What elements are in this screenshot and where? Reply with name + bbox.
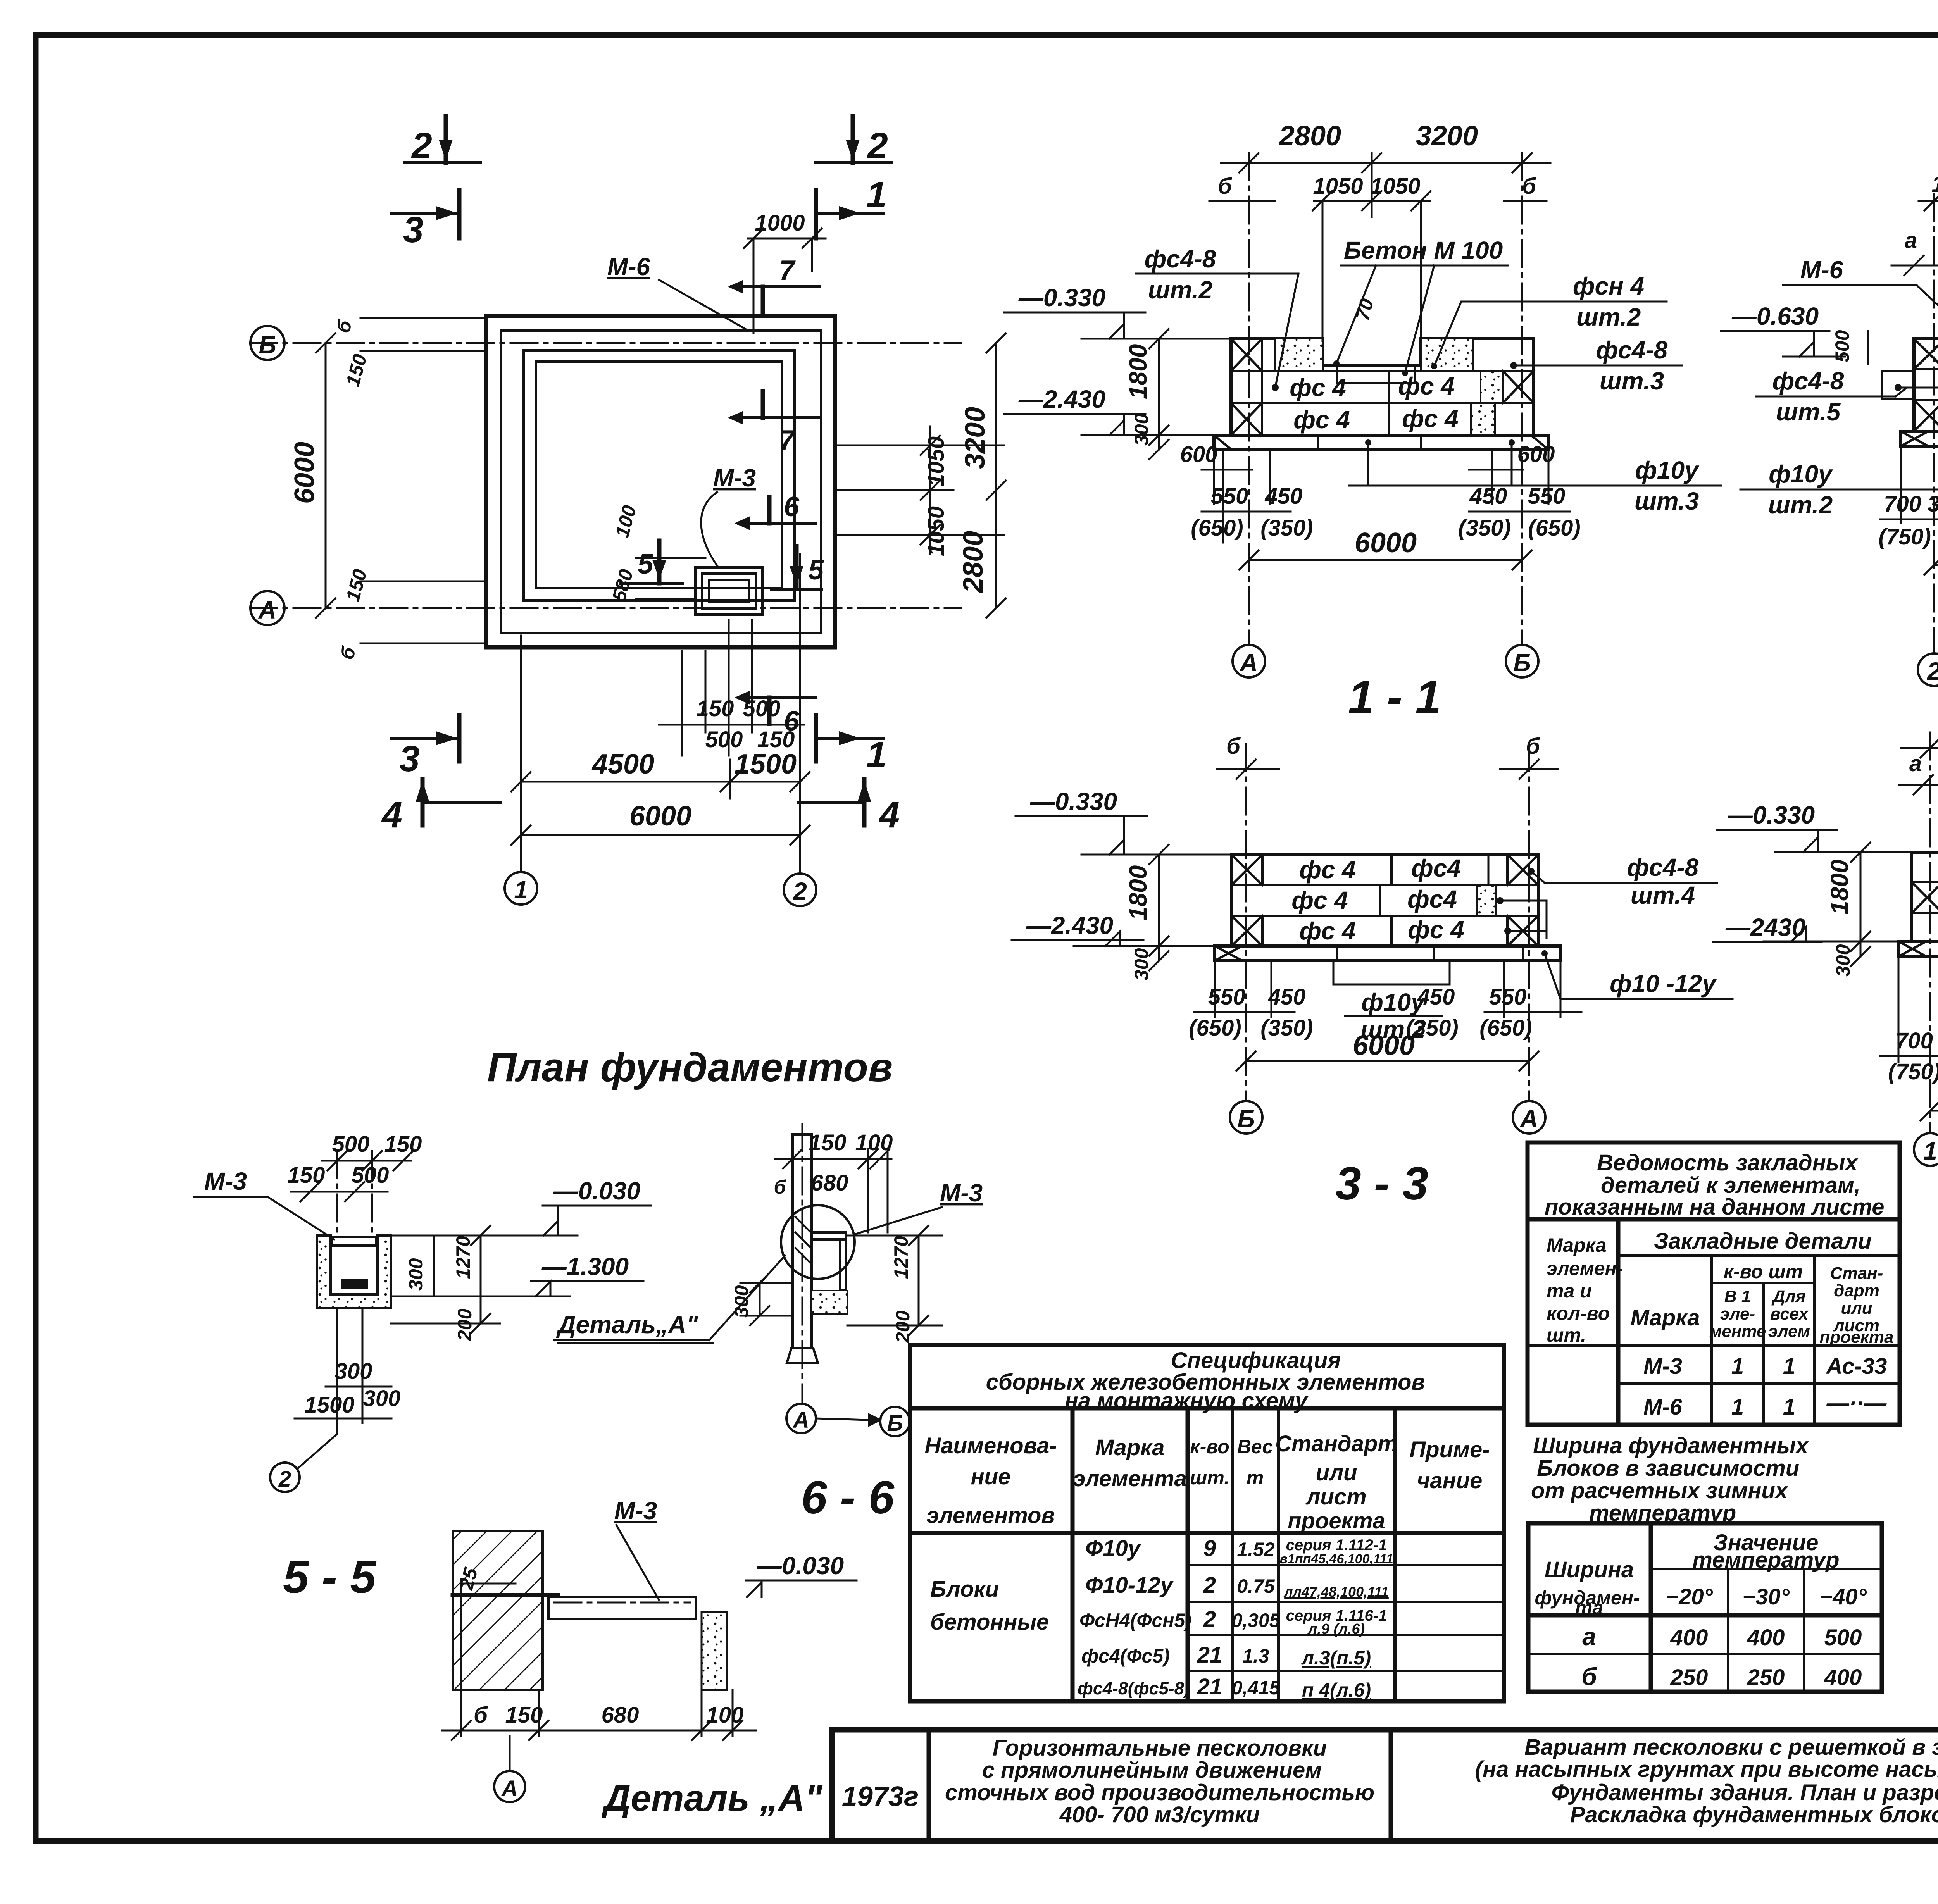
svg-text:1050: 1050 [924,506,949,556]
dim 6000 4-4 [1930,1110,1938,1112]
svg-text:М-3: М-3 [1643,1354,1682,1379]
svg-text:А: А [792,1408,809,1433]
svg-text:б: б [774,1176,787,1198]
section marker 4 bottom-right [862,779,867,825]
svg-text:(650): (650) [1479,1015,1532,1041]
joints and dotted blocks 3-3 [1390,855,1393,885]
b marks 3-3 top [1217,768,1279,770]
svg-text:—0.330: —0.330 [1030,787,1117,815]
svg-text:фс4: фс4 [1411,854,1461,882]
svg-text:400: 400 [1747,1625,1785,1650]
plan second line [501,331,821,633]
svg-text:шт.2: шт.2 [1576,303,1641,331]
bottom dims 3-3 left [1214,961,1216,1017]
section 7 marker lower [732,416,820,419]
dim 1050 1050 and b marks [1209,200,1275,202]
svg-text:шт.3: шт.3 [1600,367,1664,395]
axis circle 2 5-5 [270,1463,300,1492]
svg-text:—0.630: —0.630 [1731,302,1819,330]
svg-text:Марка: Марка [1630,1305,1700,1330]
svg-text:5: 5 [808,555,824,586]
svg-text:3: 3 [403,209,424,250]
plan dimension 4500 1500 [521,781,800,783]
svg-text:—0.330: —0.330 [1018,284,1105,312]
step line 25 [453,1593,558,1597]
svg-text:фс4-8: фс4-8 [1627,853,1699,881]
svg-text:—0.030: —0.030 [553,1177,640,1205]
svg-text:6 - 6: 6 - 6 [801,1472,895,1523]
X block row2 right [1503,371,1534,403]
svg-text:проекта: проекта [1820,1328,1894,1347]
axis 1 vertical line [520,636,522,871]
top plate 6-6 [812,1232,846,1239]
specification table frame [910,1345,1504,1701]
plan outer foundation edge [486,316,835,647]
U-shaped pit section [317,1235,391,1308]
svg-text:2800: 2800 [1278,121,1341,152]
svg-text:кол-во: кол-во [1547,1303,1610,1324]
svg-text:Ф10-12у: Ф10-12у [1085,1573,1174,1598]
svg-text:300: 300 [1832,944,1854,977]
svg-text:2: 2 [793,877,807,905]
svg-text:шт.: шт. [1190,1467,1229,1489]
plan right extension lines [835,445,1004,446]
svg-text:300: 300 [1131,413,1152,446]
svg-text:680: 680 [602,1702,639,1728]
vertical 1800 4-4 [1860,852,1862,956]
axis A dash-dot line [250,607,961,609]
svg-text:Б: Б [1513,649,1531,677]
svg-text:а: а [1905,228,1917,253]
svg-text:1000: 1000 [1931,172,1938,197]
svg-text:Стандарт: Стандарт [1275,1431,1398,1456]
M-3 plate detail A [548,1597,696,1619]
svg-text:фс 4: фс 4 [1293,406,1350,434]
row2 joints and dotted block [1261,371,1263,403]
svg-text:(на насыпных грунтах при вы: (на насыпных грунтах при высоте насыпи д… [1475,1757,1938,1782]
svg-text:проекта: проекта [1288,1508,1385,1534]
svg-text:1: 1 [866,174,887,215]
X blocks 3-3 [1261,855,1264,885]
dim 6000 [1249,559,1522,561]
svg-text:—2430: —2430 [1725,913,1805,941]
svg-text:шт.5: шт.5 [1776,398,1841,426]
svg-text:б: б [1218,174,1233,199]
svg-text:ф10у: ф10у [1361,988,1426,1016]
svg-text:фс 4: фс 4 [1299,856,1356,884]
svg-text:фс4-8: фс4-8 [1596,336,1668,364]
svg-text:4: 4 [381,794,402,836]
svg-text:элемен-: элемен- [1547,1258,1623,1279]
svg-text:а: а [1582,1623,1596,1651]
axis B dash-dot line [250,342,961,344]
svg-text:или: или [1316,1460,1357,1485]
svg-text:450: 450 [1417,984,1455,1010]
a marks 4-4 [1899,784,1938,786]
svg-text:400: 400 [1824,1665,1862,1690]
svg-text:ф10у: ф10у [1635,456,1700,484]
svg-text:М-3: М-3 [713,464,756,492]
svg-text:3 - 3: 3 - 3 [1335,1158,1428,1210]
svg-text:М-6: М-6 [1800,256,1843,284]
svg-text:б: б [474,1702,488,1728]
svg-text:План фундаментов: План фундаментов [487,1045,893,1090]
svg-text:фс 4: фс 4 [1398,372,1455,400]
svg-text:лист: лист [1305,1484,1366,1509]
svg-text:фс 4: фс 4 [1290,374,1346,401]
svg-text:Горизонтальные песколовки: Горизонтальные песколовки [993,1735,1327,1761]
svg-text:(650): (650) [1191,515,1243,541]
axis lines 4-4 [1929,732,1931,1133]
svg-text:Бетон М 100: Бетон М 100 [1344,236,1503,264]
section 2-2 wall [1914,339,1938,431]
svg-text:Ширина фундаментных: Ширина фундаментных [1533,1433,1809,1458]
svg-text:А: А [1239,649,1258,677]
svg-text:300: 300 [335,1359,372,1384]
axis circle 2 [784,874,816,906]
svg-text:1050: 1050 [924,436,949,486]
bottom dim cluster left [1213,450,1215,504]
section marker 1 top-right [816,212,884,215]
axis circles 4-4 [1914,1133,1938,1166]
section marker 1 bottom-right [816,737,884,740]
svg-text:л.3(п.5): л.3(п.5) [1301,1647,1371,1669]
svg-text:550: 550 [1208,984,1246,1010]
svg-text:Ведомость закладных: Ведомость закладных [1597,1150,1859,1175]
svg-text:(350): (350) [1260,1015,1313,1041]
vedomost table frame [1528,1142,1900,1425]
svg-text:1.3: 1.3 [1242,1645,1269,1667]
section 5 marker left [620,582,682,585]
svg-text:фс4: фс4 [1407,885,1457,913]
svg-text:550: 550 [1489,984,1527,1010]
axis circles 3-3 [1230,1101,1262,1134]
svg-text:—1.300: —1.300 [541,1253,629,1280]
svg-text:всех: всех [1770,1304,1809,1323]
svg-text:А: А [258,596,276,624]
svg-text:2: 2 [1927,657,1938,685]
svg-text:150: 150 [505,1702,543,1728]
section 4-4 wall [1912,852,1938,941]
svg-text:(750) (250): (750) (250) [1879,524,1938,550]
svg-text:1270: 1270 [452,1236,474,1279]
svg-text:21: 21 [1197,1642,1222,1668]
svg-text:1 - 1: 1 - 1 [1348,671,1441,723]
svg-text:Ас-33: Ас-33 [1826,1354,1887,1379]
section 3-3 wall [1231,855,1538,946]
svg-text:фс 4: фс 4 [1299,917,1356,945]
svg-text:п 4(л.6): п 4(л.6) [1302,1679,1371,1701]
bottom dims 4-4 [1898,956,1900,1062]
Деталь А caption near title block [602,1778,823,1819]
svg-text:1800: 1800 [1826,860,1854,915]
svg-text:элементов: элементов [926,1503,1055,1528]
footing 3-3 [1215,946,1560,961]
svg-text:шт.2: шт.2 [1768,491,1833,519]
vertical dim 1800 / 300 [1158,339,1160,450]
svg-text:200: 200 [892,1310,914,1343]
svg-text:3200: 3200 [1416,121,1478,152]
svg-text:фс 4: фс 4 [1408,916,1464,944]
vertical dims 1800 300 3-3 [1158,855,1160,961]
svg-text:чание: чание [1417,1468,1483,1493]
svg-text:Деталь„А": Деталь„А" [556,1311,698,1339]
small dims bottom-left 150,b [360,581,484,582]
concrete fill right of notch [1421,339,1473,371]
svg-text:150: 150 [384,1132,422,1157]
svg-text:(650): (650) [1189,1015,1241,1041]
svg-text:б: б [1522,174,1537,199]
plan dim 3200 2800 vertical right [995,343,997,608]
axis circle B [250,326,284,360]
svg-text:—2.430: —2.430 [1026,912,1113,939]
svg-text:б: б [1226,734,1241,759]
callout circle 6-6 [781,1205,855,1279]
svg-text:к-во: к-во [1190,1436,1229,1458]
svg-text:150: 150 [809,1130,847,1155]
svg-text:М-6: М-6 [607,253,650,281]
svg-text:300: 300 [1131,948,1152,980]
plan bottom small dims 150 500 500 150 [659,724,804,726]
axis circle A [250,591,284,625]
svg-text:450: 450 [1268,984,1306,1010]
svg-text:А: А [1519,1105,1538,1133]
axis circles A B 6-6 [786,1404,816,1433]
svg-text:600: 600 [1517,442,1555,467]
svg-text:1.52: 1.52 [1237,1539,1275,1560]
plan inner foundation edge outer [523,351,795,601]
svg-text:фс4-8(фс5-8): фс4-8(фс5-8) [1078,1678,1190,1698]
svg-text:2: 2 [278,1466,291,1492]
svg-text:6000: 6000 [1353,1030,1415,1061]
svg-text:фс 4: фс 4 [1402,405,1459,432]
svg-text:4: 4 [878,794,900,836]
top dim 2800 3200 [1221,162,1550,164]
X block row3 left [1914,400,1938,431]
svg-text:600: 600 [1180,442,1218,467]
X block row1 left [1914,339,1938,369]
title block outline [832,1727,1938,1733]
svg-text:2800: 2800 [958,531,989,594]
svg-text:Б: Б [1237,1105,1255,1133]
svg-text:показанным на данном листе: показанным на данном листе [1545,1194,1885,1220]
dimension 1000 top [748,238,826,240]
svg-text:—··—: —··— [1826,1391,1887,1416]
svg-text:—0.330: —0.330 [1728,801,1815,829]
svg-text:500: 500 [352,1163,389,1188]
top dim 4500 1500 [1901,747,1938,749]
svg-text:300: 300 [363,1386,401,1411]
svg-text:фсн 4: фсн 4 [1573,272,1644,300]
section marker 2 top-right [851,116,855,163]
svg-text:Наименова-: Наименова- [924,1433,1057,1458]
svg-text:(350): (350) [1260,515,1313,541]
bottom dim cluster right [1491,450,1493,504]
svg-text:л.9 (л.6): л.9 (л.6) [1307,1621,1365,1637]
svg-text:менте: менте [1709,1322,1766,1341]
svg-text:элем: элем [1768,1322,1810,1341]
footing 4-4 [1898,941,1938,956]
axis circles 2-2 [1918,653,1938,686]
svg-text:(650): (650) [1528,515,1580,541]
svg-text:2: 2 [867,125,888,166]
section marker 2 top-left [444,116,448,163]
svg-text:2: 2 [1203,1607,1216,1632]
svg-text:6: 6 [784,491,800,522]
svg-text:500: 500 [1831,330,1853,362]
svg-text:Вариант песколовки с решетко: Вариант песколовки с решеткой в здании [1524,1735,1938,1760]
section marker 3 top-left [391,212,459,215]
row2 protruding block left [1882,371,1914,399]
svg-text:3: 3 [399,738,420,779]
300 vertical left of post [759,1283,761,1316]
svg-text:1: 1 [866,734,887,775]
svg-text:М-3: М-3 [940,1179,983,1207]
svg-text:150: 150 [697,696,734,721]
post 6-6 [793,1134,812,1348]
X block row3 left [1231,403,1262,435]
svg-text:Стан-: Стан- [1830,1264,1883,1283]
svg-text:7: 7 [779,425,796,456]
svg-text:1: 1 [1783,1354,1795,1379]
svg-text:сточных вод производительность: сточных вод производительностью [945,1780,1374,1805]
svg-text:550: 550 [1528,484,1566,509]
svg-text:6000: 6000 [289,442,320,504]
axis lines 2-2 [1933,194,1935,653]
svg-text:2: 2 [411,125,432,166]
section 6 marker upper [738,522,816,525]
svg-text:−30°: −30° [1742,1584,1790,1609]
svg-text:2: 2 [1203,1573,1216,1598]
svg-text:1: 1 [1731,1394,1744,1420]
plan dimension 6000 bottom [521,834,800,836]
svg-text:6000: 6000 [629,801,691,832]
row lines [1231,370,1534,372]
svg-text:ФсН4(Фсн5): ФсН4(Фсн5) [1079,1609,1191,1631]
hatched wall block [453,1531,543,1690]
svg-text:1: 1 [1923,1137,1937,1165]
a marks 2-2 [1891,265,1938,267]
svg-text:дарт: дарт [1834,1281,1879,1300]
svg-text:1800: 1800 [1124,865,1152,920]
svg-text:от расчетных зимних: от расчетных зимних [1531,1478,1789,1503]
svg-text:Марка: Марка [1095,1435,1164,1460]
svg-text:фс4-8: фс4-8 [1145,245,1216,273]
svg-text:б: б [1526,734,1541,759]
plan dim 1050 1050 vertical [929,426,931,554]
svg-text:Деталь „А": Деталь „А" [602,1778,823,1819]
pit (priyamok) plan [695,567,763,615]
svg-text:−40°: −40° [1819,1584,1867,1609]
axis 2 vertical line [799,554,801,873]
svg-text:150: 150 [288,1163,325,1188]
svg-text:Б: Б [259,331,276,359]
dims above 5-5 [322,1160,411,1162]
svg-text:температур: температур [1692,1547,1839,1573]
svg-text:бетонные: бетонные [930,1609,1049,1635]
svg-text:Закладные детали: Закладные детали [1654,1229,1872,1254]
dims above post [775,1158,891,1160]
svg-text:400: 400 [1670,1625,1708,1650]
svg-text:0,305: 0,305 [1231,1609,1280,1631]
svg-text:1: 1 [1731,1354,1744,1379]
svg-text:1500: 1500 [735,749,797,780]
svg-text:б: б [1581,1663,1598,1690]
axis circle A detail A [494,1771,525,1802]
svg-text:ф10 -12у: ф10 -12у [1610,970,1717,998]
svg-text:1050: 1050 [1313,174,1363,199]
svg-text:500: 500 [743,696,781,721]
section 5 marker right [771,588,822,591]
axis dash-dot lines [1248,153,1250,645]
svg-text:фс4(Фс5): фс4(Фс5) [1081,1645,1170,1667]
footing slab [1214,435,1548,450]
vertical dims 300 1270 200 [433,1235,435,1296]
left dimension 6000 vertical [325,343,327,608]
svg-text:та и: та и [1547,1280,1592,1302]
section 1-1 wall outline with top notch [1231,339,1534,435]
svg-text:1270: 1270 [890,1236,912,1279]
svg-text:Приме-: Приме- [1409,1437,1490,1462]
bottom dims 2-2 [1900,446,1902,523]
L closure element [840,1239,846,1291]
svg-text:0,415: 0,415 [1231,1677,1280,1699]
svg-text:1800: 1800 [1124,344,1152,399]
svg-text:700 300: 700 300 [1895,1028,1938,1053]
svg-text:Марка: Марка [1547,1234,1606,1256]
svg-text:(750) (250): (750) (250) [1888,1059,1938,1084]
svg-text:—2.430: —2.430 [1018,385,1105,413]
svg-text:Ширина: Ширина [1545,1557,1634,1582]
svg-text:Блоков в зависимости: Блоков в зависимости [1537,1456,1799,1481]
svg-text:1: 1 [514,876,528,904]
svg-text:В 1: В 1 [1724,1287,1751,1306]
svg-text:с прямолинейным движением: с прямолинейным движением [982,1758,1322,1783]
svg-text:Для: Для [1771,1287,1805,1306]
svg-text:Вес: Вес [1237,1436,1273,1458]
svg-text:100: 100 [706,1702,744,1728]
svg-text:1050: 1050 [1370,174,1420,199]
svg-text:1: 1 [1783,1394,1795,1420]
bottom dims 3-3 right [1503,961,1505,1017]
svg-text:1973г: 1973г [842,1781,919,1812]
svg-text:серия 1.112-1: серия 1.112-1 [1286,1537,1387,1554]
svg-text:М-3: М-3 [614,1497,657,1525]
svg-text:Раскладка фундаментных б: Раскладка фундаментных блоков. [1570,1802,1938,1827]
svg-text:6000: 6000 [1355,527,1417,558]
svg-text:лл47,48,100,111: лл47,48,100,111 [1283,1584,1389,1600]
svg-text:300: 300 [731,1285,752,1318]
section 6 marker lower [738,696,816,699]
svg-text:М-3: М-3 [204,1167,247,1195]
footing 2-2 [1901,431,1938,446]
svg-text:та: та [1575,1597,1603,1618]
svg-text:—0.030: —0.030 [757,1552,844,1580]
svg-text:шт.4: шт.4 [1631,881,1695,909]
label f10u sht2 center bracket [1333,961,1335,984]
svg-text:5: 5 [638,549,653,580]
width table frame [1528,1523,1882,1692]
svg-text:450: 450 [1265,484,1303,509]
svg-text:А: А [501,1776,518,1801]
svg-text:ние: ние [971,1464,1011,1489]
svg-text:т: т [1247,1467,1264,1489]
svg-text:1000: 1000 [755,210,805,236]
svg-text:на монтажную схему: на монтажную схему [1065,1388,1309,1413]
svg-text:700 300: 700 300 [1884,491,1938,517]
svg-text:шт.: шт. [1547,1324,1586,1346]
section marker 3 bottom-left [391,737,459,740]
